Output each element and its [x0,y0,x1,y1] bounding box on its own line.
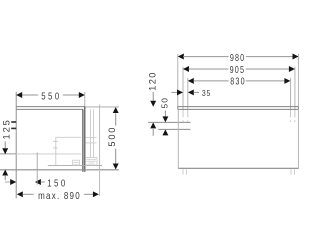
cabinet top H1 line [148,121,190,123]
svg-text:35: 35 [202,88,211,98]
extension line 980 right [297,54,299,107]
extension line 980 left [177,54,179,107]
dim 50 line upper [164,111,166,117]
svg-text:830: 830 [230,76,245,87]
rail bottom H2 line [158,128,190,130]
dim 150 tail right [41,181,45,183]
door front double line [83,107,85,172]
dim 550 arrow right [79,92,85,98]
dim max890 arrow left [17,191,23,197]
drawer top rail left [56,136,82,138]
siphon trap box [86,157,97,165]
dim 35 tail left [171,91,177,93]
dim 905 text [230,64,245,75]
dim 50 arrow up [162,129,168,135]
dim 150 text [47,178,67,189]
dim max890 tail right [84,193,93,195]
dim 35 text [202,88,211,98]
dim 550 text [41,91,61,102]
extension line 905 left [182,67,184,110]
drawer rail ticks [53,141,58,148]
dim 905 arrow left [183,66,189,72]
dim 830 arrow left [188,78,194,84]
svg-text:150: 150 [47,178,67,189]
cabinet side right [297,109,299,168]
dim 150 tail left [5,181,11,183]
drain reference line [36,153,38,185]
dim 980 arrow right [293,54,299,60]
dim 35 arrow right-pointing [177,89,183,95]
dim 125 line lower [4,176,6,181]
feet stubs [183,169,295,174]
label box 1 [73,160,80,165]
pipe clamp lines right of door [86,137,97,143]
dim 980 line left [183,56,229,58]
dim 550 right extension [84,92,86,107]
dim 125 line upper [4,142,6,149]
cabinet side left [177,109,179,168]
svg-text:500: 500 [107,126,117,147]
H2 tick at wall [11,128,16,130]
drain pipe verticals [91,109,94,157]
extension line 905 right [294,67,296,110]
wall line [15,92,17,199]
svg-text:120: 120 [148,71,158,91]
dim 550 arrow left [16,92,22,98]
dim 830 line left [194,80,229,82]
bottom rail line [48,164,102,166]
dim 980 arrow left [178,54,184,60]
dim 500 arrow up [113,107,119,113]
dim 980 text [230,52,245,63]
dim max890 tail left [23,193,34,195]
slab top extension to 500 dim [85,106,119,108]
dim 905 line left [189,68,229,70]
extension line 830 right [290,78,292,109]
dim max890 text [38,190,81,201]
dim 830 text [230,76,245,87]
dim 35 arrow left-pointing [188,89,194,95]
dim 550 line [16,94,85,96]
dim max890 arrow right [93,191,99,197]
cabinet bottom line B [0,169,119,171]
dim 500 line lower [115,149,117,164]
dim 120 arrow down [150,101,156,107]
dim 120 line upper [152,92,154,101]
shelf line A [0,153,16,155]
bracket stubs below slab [183,109,295,122]
max890 right reference line [99,105,101,197]
cabinet bottom [178,167,298,169]
dim 50 arrow down [162,116,168,122]
washbasin slab front [178,107,299,110]
extension line 830 left [187,78,189,109]
dim 120 arrow up [150,122,156,128]
drawer side vertical [55,137,57,165]
dim 980 line right [246,56,293,58]
svg-text:550: 550 [41,91,61,102]
dim 830 arrow right [284,78,290,84]
dim 905 arrow right [289,66,295,72]
dim 500 arrow down [113,164,119,170]
svg-text:50: 50 [159,97,169,108]
svg-text:125: 125 [1,118,11,139]
dim 830 line right [246,80,285,82]
H1 tick at wall [11,121,16,123]
washbasin slab side [16,107,85,110]
dim 905 line right [246,68,289,70]
dim 150 arrow left-pointing [35,179,41,185]
dim 35 tail right [194,91,200,93]
svg-text:980: 980 [230,52,245,63]
dim 150 arrow right-pointing [10,179,16,185]
dim 125 arrow down [2,148,8,154]
svg-text:905: 905 [230,64,245,75]
dim 125 arrow up [2,170,8,176]
svg-text:max. 890: max. 890 [38,190,81,201]
dim 120 line lower [152,129,154,136]
dim 500 line upper [115,113,117,125]
